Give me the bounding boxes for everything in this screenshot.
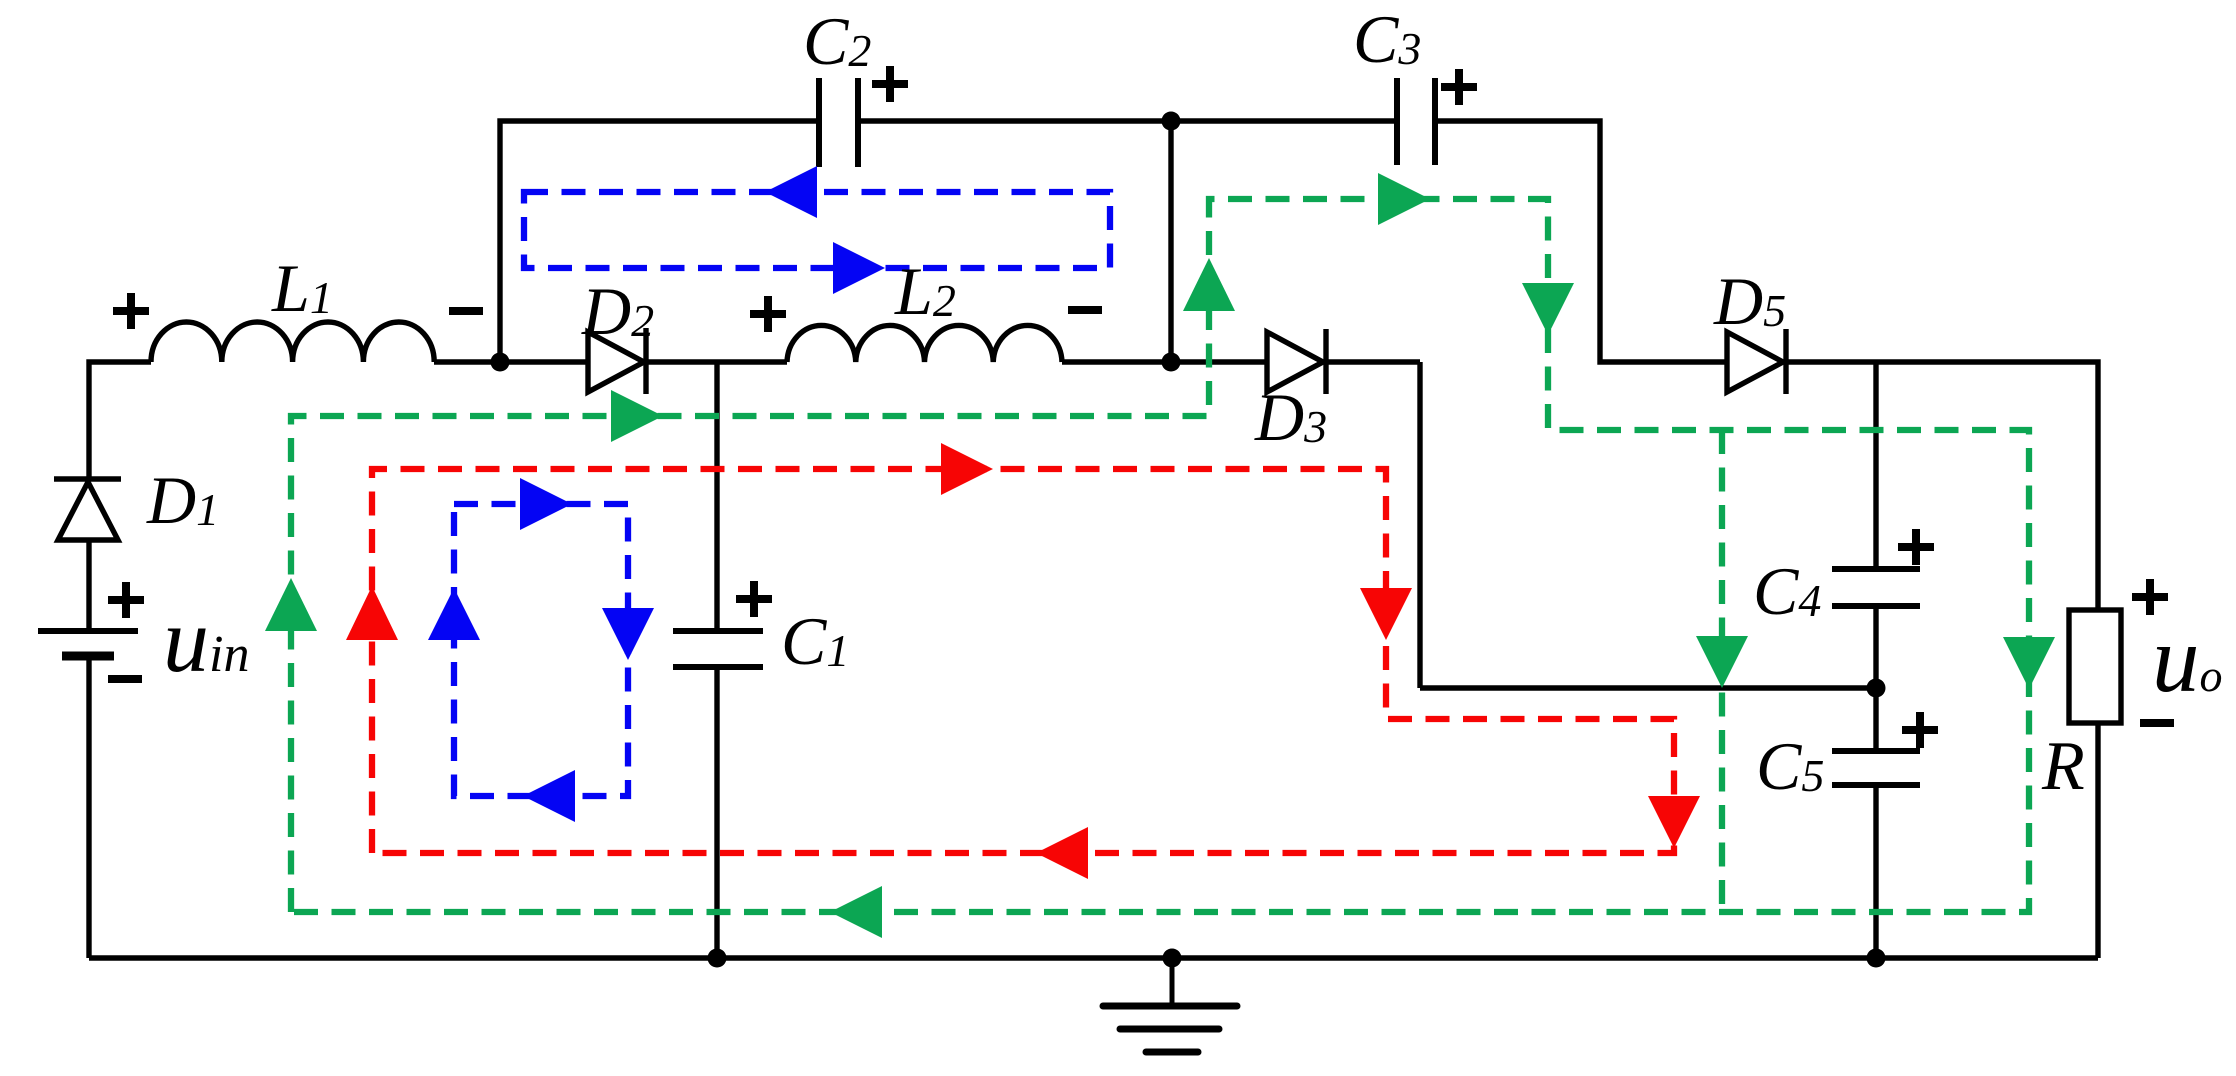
wire battery to bottom rail xyxy=(86,656,91,958)
capacitor C3 xyxy=(1397,78,1435,165)
polarity plus C5 xyxy=(1902,712,1938,748)
wire C1 column upper xyxy=(714,362,719,631)
blue arrow right on inner loop top xyxy=(520,478,572,530)
blue arrow down on inner loop right xyxy=(602,608,654,660)
polarity plus u_o xyxy=(2132,579,2168,615)
capacitor C5 xyxy=(1832,751,1920,785)
blue arrow right on loop bottom xyxy=(833,242,885,294)
node C4-C5 junction xyxy=(1867,679,1886,698)
polarity plus C4 xyxy=(1898,529,1934,565)
green arrow right top leg xyxy=(1378,173,1430,225)
blue dashed inner loop C1 xyxy=(454,504,628,796)
red arrow down mid leg xyxy=(1360,588,1412,640)
capacitor C1 xyxy=(673,631,763,667)
wire D5 cathode to R corner xyxy=(1786,362,2098,610)
polarity plus C1 xyxy=(736,581,772,617)
red arrow up left leg xyxy=(346,586,398,640)
diode D1 xyxy=(54,479,121,540)
wire below R xyxy=(2095,723,2100,958)
wire vertical after D3 xyxy=(1417,362,1422,688)
node C1 bottom rail xyxy=(708,949,727,968)
wire C2 to C3 xyxy=(858,118,1397,123)
wire D2 cathode to L2 xyxy=(646,359,787,364)
capacitor C2 xyxy=(819,78,858,167)
wire D1 to battery xyxy=(86,540,91,631)
wire horizontal to C4C5 node xyxy=(1420,685,1876,690)
blue dashed loop C2-L2 xyxy=(524,192,1110,268)
resistor R xyxy=(2069,610,2121,723)
wire top branch up xyxy=(500,121,819,362)
battery u_in xyxy=(38,631,138,656)
green dashed loop xyxy=(291,199,2029,912)
polarity plus C2 xyxy=(872,66,908,102)
wire C4 to node xyxy=(1873,606,1878,688)
wire C1 column lower xyxy=(714,667,719,958)
green arrow down C4 leg xyxy=(1696,636,1748,688)
red arrow right top leg xyxy=(941,443,993,495)
wire C4 column upper xyxy=(1873,362,1878,569)
blue arrow up on inner loop left xyxy=(428,588,480,640)
wire L2 to D3 xyxy=(1062,359,1267,364)
node at D3 anode junction xyxy=(1162,353,1181,372)
polarity minus battery xyxy=(108,675,142,683)
wire C3 to corner down to D5 xyxy=(1435,121,1727,362)
ground xyxy=(1103,958,1237,1052)
inductor L2 xyxy=(787,325,1062,362)
diode D2 xyxy=(588,328,646,394)
node at L1-D2 junction xyxy=(491,353,510,372)
diode D3 xyxy=(1267,329,1326,394)
blue arrow left on loop top xyxy=(765,166,817,218)
polarity plus battery xyxy=(108,582,144,618)
blue arrow left on inner loop bottom xyxy=(523,770,575,822)
capacitor C4 xyxy=(1832,569,1920,606)
wire bottom rail xyxy=(89,955,2098,960)
green arrow left bottom leg xyxy=(830,886,882,938)
polarity minus u_o xyxy=(2140,719,2174,727)
green arrow right upper-left leg xyxy=(611,390,663,442)
diode D5 xyxy=(1727,329,1786,394)
wire D3 cathode to corner xyxy=(1326,359,1420,364)
polarity plus C3 xyxy=(1441,69,1477,105)
wire L1 to D2 xyxy=(434,359,588,364)
wire C5 to bottom rail xyxy=(1873,785,1878,958)
green arrow up left leg xyxy=(265,578,317,631)
wire left rail top (L1 input corner) xyxy=(89,362,151,479)
green dashed branch C4 xyxy=(1719,430,1725,912)
green arrow down C3 leg xyxy=(1522,283,1574,335)
wire node C2C3 down xyxy=(1168,121,1173,362)
red arrow left bottom leg xyxy=(1036,827,1088,879)
node ground rail xyxy=(1163,949,1182,968)
green arrow down R leg xyxy=(2003,637,2055,689)
polarity plus L2 xyxy=(750,296,786,332)
node C5 bottom rail xyxy=(1867,949,1886,968)
polarity minus L2 xyxy=(1068,306,1102,314)
wire node to C5 xyxy=(1873,688,1878,751)
polarity minus L1 xyxy=(449,307,483,315)
polarity plus L1 xyxy=(113,293,149,329)
inductor L1 xyxy=(151,322,434,362)
green arrow up mid leg xyxy=(1183,258,1235,311)
svg-text:R: R xyxy=(2041,728,2085,805)
red arrow down right leg xyxy=(1648,796,1700,848)
node at C2-C3 top junction xyxy=(1162,112,1181,131)
red dashed loop xyxy=(372,469,1674,853)
